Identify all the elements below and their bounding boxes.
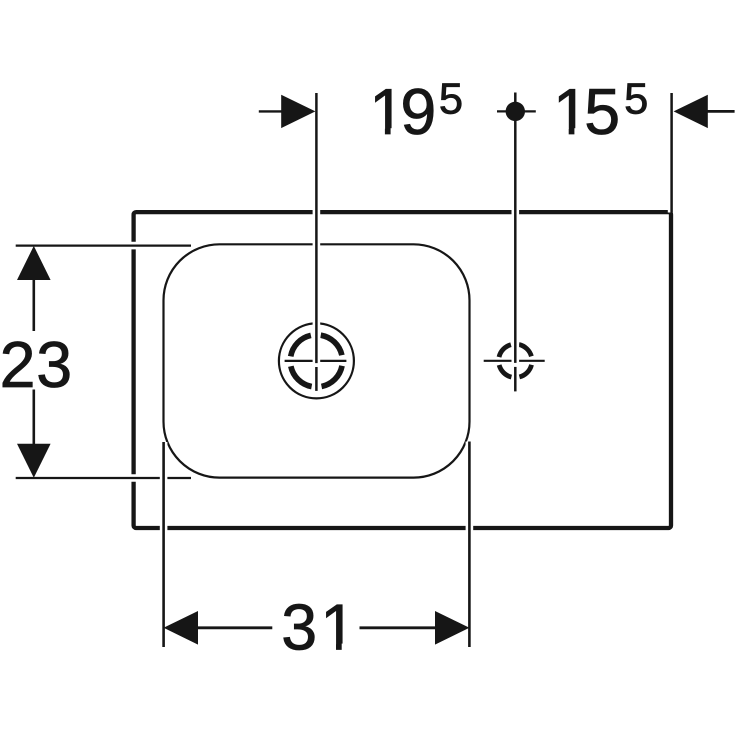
top dim tail right xyxy=(707,110,735,113)
svg-text:1: 1 xyxy=(320,592,356,664)
svg-text:3: 3 xyxy=(36,329,72,401)
dim 23 arrow up xyxy=(17,246,51,280)
extension line 31 right xyxy=(466,442,474,648)
extension line drain xyxy=(313,93,321,363)
top dim arrow right xyxy=(674,95,708,128)
drain crosshair vertical lower xyxy=(315,367,318,391)
top dim tail left xyxy=(259,110,286,112)
svg-text:5: 5 xyxy=(624,76,648,124)
dim 31 tail left xyxy=(198,626,273,629)
tick 23 bottom xyxy=(16,474,191,482)
tick 23 top xyxy=(16,242,191,250)
dim dot xyxy=(506,102,525,121)
drain ring xyxy=(290,335,342,387)
drain crosshair horizontal xyxy=(285,360,347,362)
extension line right edge xyxy=(668,93,676,213)
extension line 31 left xyxy=(160,442,168,647)
dim 23 line lower xyxy=(32,390,35,445)
tap crosshair horizontal xyxy=(484,360,545,362)
extension line tap xyxy=(511,93,519,363)
dim line at dot xyxy=(497,110,536,112)
dim 31 arrow left xyxy=(164,611,198,645)
tap hole ring xyxy=(499,344,532,377)
dim 31 tail right xyxy=(360,626,436,629)
dim 31 arrow right xyxy=(435,611,469,645)
svg-text:5: 5 xyxy=(584,76,620,148)
top dim arrow left xyxy=(281,95,315,128)
svg-text:9: 9 xyxy=(400,76,436,148)
dim 23 arrow down xyxy=(17,444,51,478)
tap crosshair vertical lower xyxy=(514,367,517,392)
svg-text:3: 3 xyxy=(281,592,317,664)
dim 23 line upper xyxy=(32,280,35,332)
bowl xyxy=(164,244,470,477)
svg-text:2: 2 xyxy=(0,329,35,401)
svg-text:5: 5 xyxy=(439,76,463,124)
washbasin outline xyxy=(134,212,671,528)
drain outer circle xyxy=(279,323,354,398)
